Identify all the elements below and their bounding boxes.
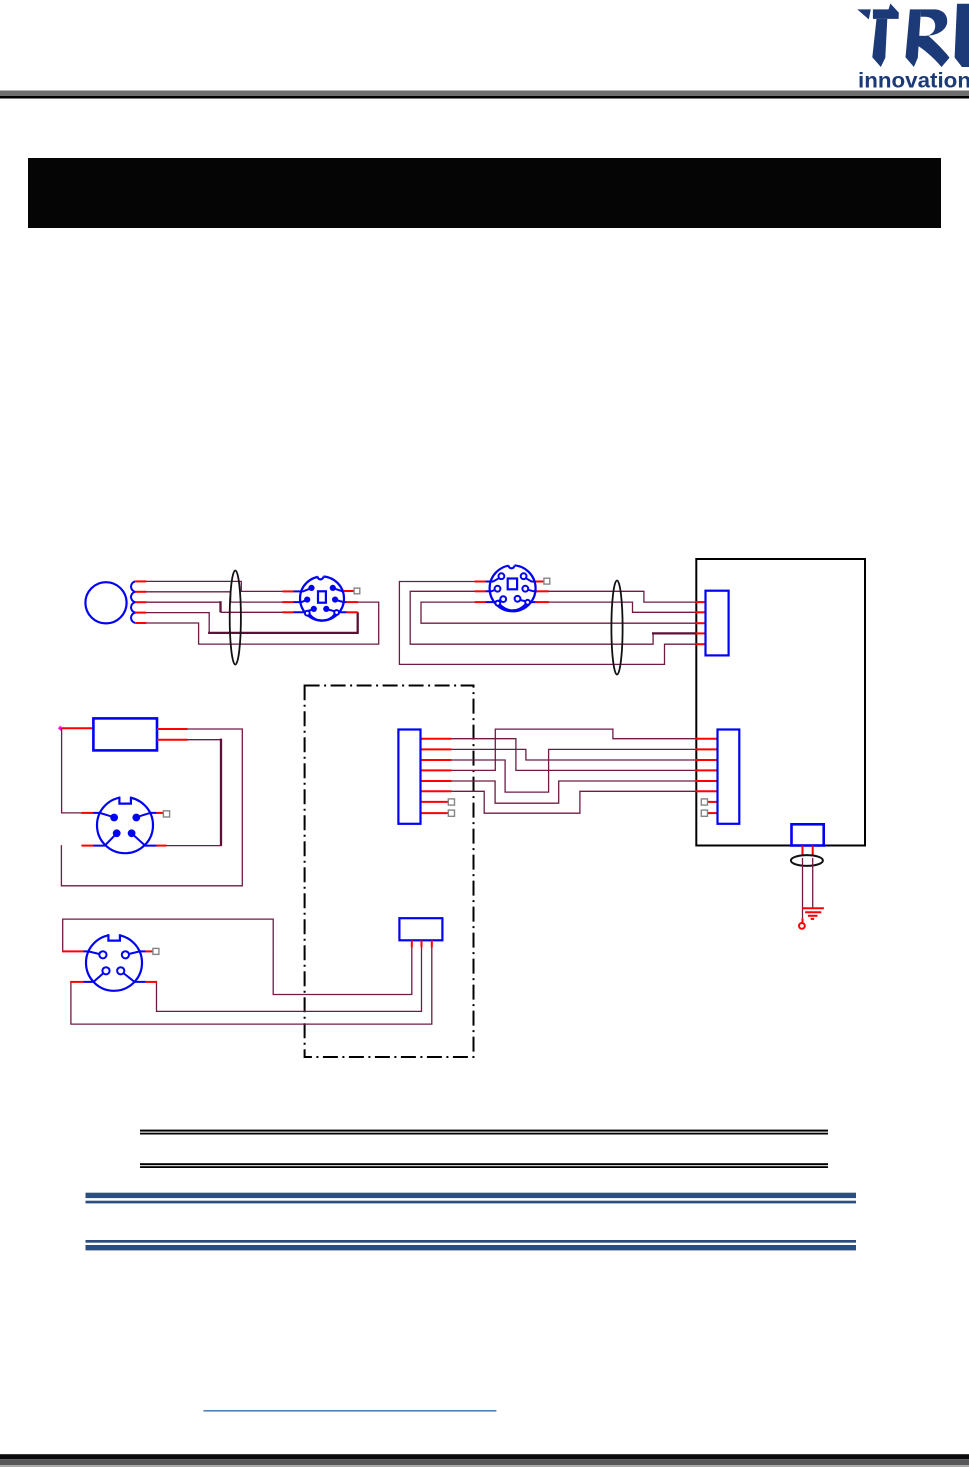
- connector K red stub row7: [421, 801, 449, 803]
- connector P2 red stub row5: [696, 780, 719, 782]
- connector J1 pin 3: [304, 597, 310, 603]
- connector J3 blue lead right row1: [137, 813, 156, 817]
- connector P2 header body: [718, 730, 740, 824]
- component B1 body: [93, 718, 157, 750]
- connector P1 red stub row2: [696, 611, 707, 613]
- header H1 body: [399, 918, 442, 940]
- connector J1 red stub left row1: [282, 590, 294, 592]
- connector J2 red stub right row3: [535, 601, 549, 603]
- footer hyperlink underline: [203, 1410, 496, 1412]
- component B1 output stub 1: [157, 728, 187, 730]
- connector J4 blue lead left row1: [84, 951, 102, 954]
- connector J2 red stub left row3: [475, 601, 486, 603]
- coil tap stub 4: [135, 612, 146, 614]
- connector J1 blue lead right row2: [336, 600, 347, 602]
- footer black double line 1: [140, 1130, 828, 1132]
- connector J1 pin 2: [330, 585, 336, 591]
- connector P2 red stub row2: [696, 748, 719, 750]
- connector J3 NC terminal square: [163, 811, 169, 817]
- wire J4 pin1 to header H1 stub1: [63, 919, 412, 994]
- connector J2 blue lead left row3: [486, 600, 503, 603]
- connector J1 blue lead left row1: [294, 588, 311, 591]
- wire tap4 riser to J1 bottom-right: [357, 612, 359, 634]
- connector P1 red stub row4: [696, 632, 707, 634]
- footer blue band 2: [86, 1240, 857, 1243]
- cable shield ellipse E2: [611, 581, 622, 675]
- connector J1 pin 1: [308, 585, 314, 591]
- connector J4 blue lead bottom-right: [122, 972, 146, 982]
- connector K red stub row6: [421, 790, 452, 792]
- wire riser bottom to J3 pin4: [166, 845, 222, 847]
- wire B1 stub1 outer loop to J3 pin3: [61, 729, 242, 886]
- title black bar: [28, 158, 941, 228]
- connector J4 NC terminal square: [153, 948, 159, 954]
- connector J1 blue lead right row3: [327, 609, 347, 612]
- header rule black line: [0, 96, 969, 99]
- ferrite shield ellipse E3: [791, 855, 823, 866]
- wire tap5 loop to J1 mid-right: [146, 602, 379, 644]
- connector K NC square row8: [448, 810, 454, 816]
- connector J3 red stub right row1: [156, 812, 163, 814]
- logo TRI letter T bar with arrow: [873, 4, 899, 19]
- connector J3 pin 3: [113, 829, 121, 837]
- connector J1 red stub right row1: [344, 590, 355, 592]
- connector J2 pin 5: [500, 596, 506, 602]
- connector J4 4-pin DIN shell: [86, 931, 142, 991]
- connector P1 red stub row5: [696, 643, 707, 645]
- wire left lead to terminal: [802, 858, 804, 918]
- coil tap stub 5: [135, 622, 146, 624]
- wire tap4 thick run under J1: [208, 632, 358, 634]
- svg-text:innovation: innovation: [858, 70, 969, 93]
- wire tap4 vertical drop: [146, 613, 209, 633]
- wire tap3 to J1 bottom-left horizontal: [146, 601, 221, 603]
- coil winding of M1: [131, 581, 135, 623]
- connector J1 key slot: [318, 591, 326, 602]
- connector J1 red stub right row2: [346, 601, 358, 603]
- cable assembly dashed boundary box: [305, 686, 474, 1058]
- connector P2 NC square row7: [701, 799, 707, 805]
- wire K row5 to P2 row5: [451, 781, 696, 803]
- connector K red stub row1: [421, 738, 452, 740]
- component B1 output stub 2: [157, 739, 187, 741]
- connector J2 NC terminal square: [544, 578, 550, 584]
- connector J3 pin 1: [110, 814, 118, 822]
- footer black double line 2: [140, 1163, 828, 1165]
- coil tap stub 2: [135, 591, 146, 593]
- wire J2 pin4 to P1 row1: [548, 591, 696, 602]
- wire pink terminal to component B1: [62, 727, 94, 729]
- connector P2 red stub row7: [708, 801, 719, 803]
- header H1 red stub 1: [411, 940, 413, 947]
- open terminal circle: [799, 923, 805, 929]
- wire J2 pin3 thick segment into P1 row4: [652, 632, 696, 634]
- coil tap stub 1: [135, 580, 146, 582]
- connector J3 red stub bottom-right: [156, 845, 166, 847]
- connector P2 red stub row3: [696, 759, 719, 761]
- connector J1 6-pin mini-DIN shell: [300, 574, 344, 621]
- connector J4 pin 1: [99, 951, 106, 958]
- connector K NC square row7: [448, 799, 454, 805]
- page bottom light gray strip: [0, 1465, 969, 1467]
- connector J4 pin 3: [102, 967, 109, 974]
- wire J2 pin6 to P1 row2: [548, 602, 696, 612]
- connector J3 blue lead bottom-left: [93, 834, 115, 845]
- wire pink node down to J3 pin1: [62, 728, 83, 813]
- logo TRI letter R stem: [906, 9, 922, 67]
- control unit U1 enclosure box: [696, 559, 865, 846]
- connector J4 blue lead bottom-left: [84, 972, 105, 982]
- connector J2 blue lead right row3: [518, 600, 537, 603]
- connector J1 red stub left row3: [282, 611, 294, 613]
- connector J2 key slot: [508, 579, 517, 590]
- wire tap2 to J1 mid-left: [146, 592, 283, 602]
- page bottom gray bar: [0, 1459, 969, 1465]
- connector J3 blue lead bottom-right: [133, 834, 157, 845]
- connector J2 pin 3: [495, 586, 501, 592]
- coil tap stub 3: [135, 601, 146, 603]
- connector J2 blue lead right row1: [525, 577, 537, 581]
- connector J3 pin 2: [132, 814, 140, 822]
- connector K header body: [398, 730, 420, 824]
- connector J2 blue lead left row1: [486, 577, 501, 581]
- earth ground bar 1: [802, 907, 824, 909]
- connector J2 red stub right row1: [535, 581, 544, 583]
- connector J2 red stub left row1: [475, 581, 486, 583]
- earth ground bar 3: [808, 915, 818, 917]
- connector J3 blue lead left row1: [93, 813, 113, 817]
- wire J2 pin5 loop to P1 row3: [421, 602, 696, 623]
- footer blue band 1: [86, 1193, 857, 1198]
- cable shield ellipse E1: [230, 571, 241, 665]
- connector J3 4-pin DIN shell: [97, 794, 153, 854]
- connector J2 red stub left row2: [475, 590, 486, 592]
- connector J2 pin 6: [515, 596, 521, 602]
- connector J1 pin 4: [332, 597, 338, 603]
- motor/sensor body M1 circle: [85, 582, 126, 623]
- connector K red stub row8: [421, 812, 449, 814]
- connector J1 pin 5: [311, 606, 317, 612]
- connector J4 pin 4: [117, 967, 124, 974]
- connector J1 red stub right row3: [346, 611, 358, 613]
- wire J2 pin3 loop to P1 row4: [410, 591, 653, 644]
- connector K red stub row4: [421, 769, 452, 771]
- wire K row3 to P2 row2: [451, 749, 696, 792]
- connector J4 red stub right row1: [145, 950, 153, 952]
- connector P2 red stub row6: [696, 790, 719, 792]
- connector J4 red stub left row1: [62, 950, 84, 952]
- wire J4 pin4 to header H1 stub2: [157, 947, 422, 1012]
- connector J1 blue lead left row2: [294, 600, 307, 602]
- connector J3 red stub bottom-left: [81, 845, 93, 847]
- earth ground bar 4: [811, 918, 814, 920]
- wire K row1 to P2 row4: [451, 739, 696, 771]
- header H1 red stub 3: [431, 940, 433, 947]
- wire thick riser x221: [220, 739, 222, 846]
- wire B1 stub2 to thick riser: [187, 739, 221, 741]
- logo TRI letter T stem: [872, 19, 887, 67]
- wire J2 pin1 loop to P1 row5: [399, 582, 696, 665]
- connector P2 red stub row4: [696, 769, 719, 771]
- connector P2 red stub row1: [696, 738, 719, 740]
- connector J1 pin 6: [323, 606, 329, 612]
- wire K row6 to P2 row6: [451, 791, 696, 813]
- earth ground bar 2: [805, 911, 821, 913]
- wire K row4 to P2 row1: [451, 729, 696, 770]
- wire J4 pin3 to header H1 stub3: [71, 947, 432, 1024]
- wire K row2 to P2 row3: [451, 749, 696, 760]
- connector J4 red stub bottom-right: [145, 981, 157, 983]
- power entry module body: [792, 824, 824, 845]
- connector J4 pin 2: [122, 951, 129, 958]
- connector P1 red stub row3: [696, 622, 707, 624]
- connector J3 red stub left row1: [81, 812, 93, 814]
- connector J3 pin 4: [128, 829, 136, 837]
- connector J2 pin 4: [522, 586, 528, 592]
- connector J2 blue lead right row2: [526, 589, 537, 591]
- connector J1 blue lead right row1 to square: [334, 588, 346, 591]
- logo TRI letter T serif: [857, 9, 871, 19]
- connector J2 6-pin mini-DIN shell: [490, 563, 536, 612]
- connector K red stub row5: [421, 780, 452, 782]
- header H1 red stub 2: [421, 940, 423, 947]
- connector J2 blue lead left row2: [486, 589, 497, 591]
- logo TRI letter I: [955, 4, 969, 67]
- connector P2 red stub row8: [708, 812, 719, 814]
- wire tap3 to J1 stub: [221, 611, 283, 613]
- connector P1 header body: [706, 591, 729, 656]
- connector J4 blue lead right row1: [127, 951, 146, 954]
- connector P2 NC square row8: [701, 810, 707, 816]
- power entry red lead right: [812, 846, 814, 856]
- connector K red stub row3: [421, 759, 452, 761]
- connector J2 red stub right row2: [535, 590, 549, 592]
- power entry red lead left: [802, 846, 804, 856]
- wire right lead to ground: [812, 858, 814, 908]
- terminal red drop: [802, 918, 804, 923]
- connector J1 blue lead left row3: [294, 609, 313, 612]
- wire tap3 thick vertical: [219, 601, 221, 612]
- wire tap1 to J1 top-left: [146, 581, 283, 591]
- logo TRI letter R bowl and leg: [913, 9, 949, 67]
- connector J1 NC terminal square: [354, 588, 360, 594]
- connector K red stub row2: [421, 748, 452, 750]
- connector J2 pin 2: [521, 573, 527, 579]
- connector J2 pin 1: [499, 573, 505, 579]
- connector J1 red stub left row2: [282, 601, 294, 603]
- page bottom black bar: [0, 1454, 969, 1459]
- connector J4 red stub bottom-left: [70, 981, 84, 983]
- node pink terminal diamond: [58, 726, 63, 731]
- connector P1 red stub row1: [696, 601, 707, 603]
- header rule gray band: [0, 91, 969, 97]
